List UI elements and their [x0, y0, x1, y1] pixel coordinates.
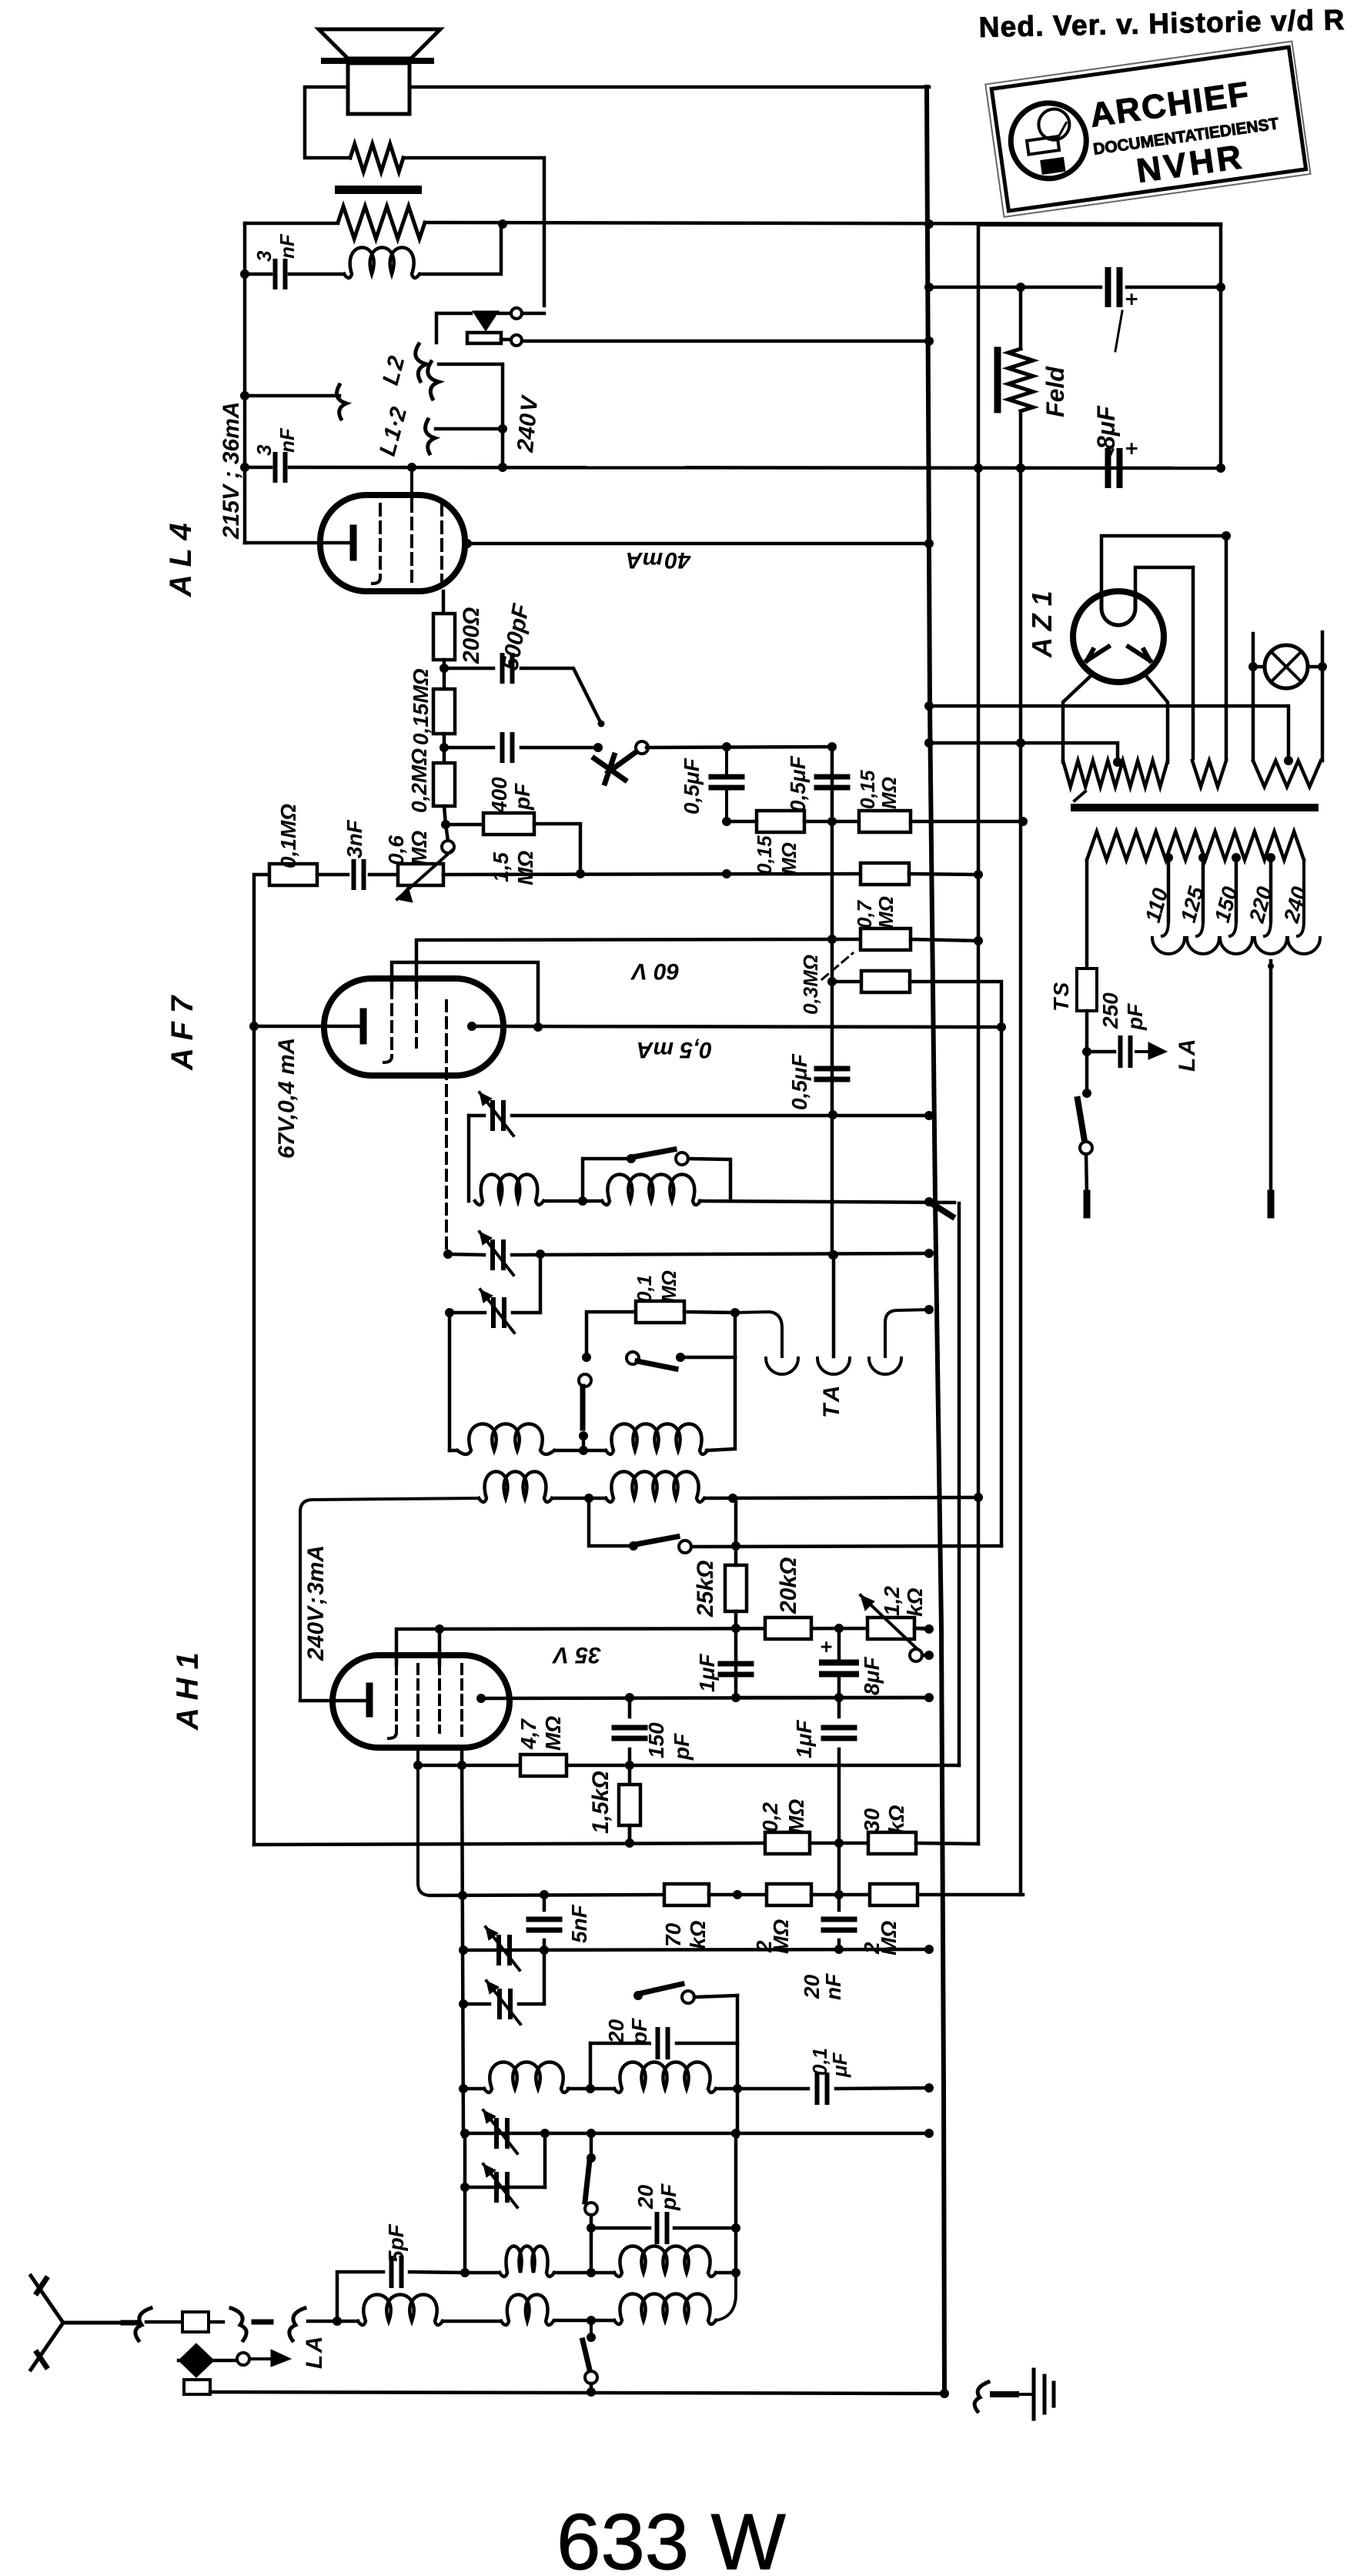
wire 1.5M to bus row: [534, 824, 580, 875]
node 1081/1448: [828, 1110, 837, 1119]
node 2462 x1090: [834, 1890, 844, 1899]
capacitor 3nF (AF7): [354, 861, 364, 888]
wire left leg row1449 to coil: [467, 1116, 471, 1201]
wire row 607 with 3nF: [245, 466, 271, 470]
node 2713 x602: [459, 2084, 468, 2093]
diamond LA plug: [179, 2343, 214, 2377]
AZ1 anode left: [1087, 647, 1108, 661]
node VD 965: [1016, 738, 1025, 748]
vertical x956 1946-2205: [734, 1498, 738, 1565]
svg-text:0,15: 0,15: [753, 835, 776, 875]
svg-text:0,5μF: 0,5μF: [680, 758, 704, 815]
wire lower contact long line to bus: [522, 340, 929, 343]
capacitor 3nF (second): [276, 454, 286, 480]
wire zigzag to right corner down: [403, 158, 544, 306]
node left rail 356: [240, 269, 249, 279]
wire 5pF branch up: [337, 2272, 383, 2321]
node 1946 right: [728, 1494, 737, 1503]
node 2603 x600: [459, 1999, 468, 2009]
wire 1.2k to bus: [914, 1628, 929, 1629]
wire 20pF2 to x956: [674, 2226, 736, 2230]
wire 3nF to pot: [369, 873, 398, 877]
transformer HV winding: [1063, 761, 1168, 787]
node bus 1628: [924, 1249, 934, 1258]
resistor 0.15M between caps: [757, 811, 804, 832]
wire 0.1M left corner down: [587, 1312, 636, 1353]
node 2394 x1090: [834, 1838, 844, 1848]
wire row 1449 to bus: [512, 1114, 929, 1118]
wire row1630 to bus: [512, 1253, 929, 1255]
node 240V rail 557: [498, 424, 507, 433]
inductor osc coil 4: [606, 1424, 707, 1455]
svg-text:1,5: 1,5: [489, 852, 513, 882]
switch row 1763 contact: [676, 1353, 685, 1362]
switch x768 lower circle: [585, 2371, 597, 2384]
node lamp right: [1318, 662, 1327, 671]
node 240V rail meets row 607: [498, 463, 507, 472]
svg-text:pF: pF: [1123, 1003, 1147, 1031]
wire fuse down: [1085, 1011, 1089, 1092]
svg-text:+: +: [1125, 287, 1138, 311]
wire 0.3M corner down (VC top): [910, 982, 1001, 1546]
wire AZ1 top right lead: [1135, 567, 1193, 593]
node coil row at bus with wiper arrow: [924, 1197, 934, 1206]
wire L2 upper terminal lead: [436, 313, 471, 343]
svg-text:0,2: 0,2: [758, 1802, 782, 1832]
wire row 2533: [463, 1949, 929, 1950]
wire row 2603 right corner: [519, 2002, 544, 2006]
svg-text:3nF: 3nF: [343, 819, 366, 858]
capacitor 8uF (cathode): [822, 1663, 856, 1674]
resistor 70kohm: [664, 1884, 709, 1905]
capacitor 0.5uF third: [817, 1069, 847, 1079]
node lamp left: [1248, 662, 1258, 671]
capacitor 20nF: [824, 1919, 854, 1930]
trimmer row 2771: [496, 2120, 507, 2146]
AZ1 anode right: [1128, 647, 1150, 661]
switch row2008 lever: [636, 1537, 677, 1544]
resistor 1.5kohm: [619, 1785, 640, 1825]
svg-text:pF: pF: [627, 2018, 651, 2046]
node 2462 x707: [540, 1890, 549, 1899]
wire coilD right up: [716, 2271, 736, 2275]
svg-text:kΩ: kΩ: [686, 1920, 710, 1949]
node VC 1334: [997, 1022, 1006, 1032]
primary taps: [1164, 853, 1173, 862]
svg-text:pF: pF: [657, 2183, 680, 2211]
wire circle to x958: [694, 1996, 737, 1997]
wire box top row 1946: [300, 1498, 479, 1701]
node bus 1701: [924, 1305, 934, 1314]
wire main bus V1: [927, 87, 944, 2394]
connector break a: [123, 2320, 137, 2326]
switch band2 contact: [579, 1431, 588, 1440]
capacitor 8uF lower: [1108, 451, 1120, 485]
switch band 1 lever: [633, 1149, 674, 1157]
node bus 965: [924, 738, 934, 748]
svg-text:0,3MΩ: 0,3MΩ: [799, 955, 822, 1015]
capacitor 0.5uF second: [817, 777, 847, 788]
resistor 4.7Mohm: [520, 1755, 567, 1776]
stamp NVHR: [985, 42, 1310, 217]
wire contact to coil row: [582, 1436, 586, 1450]
node 2771 x768: [587, 2129, 596, 2138]
svg-text:20kΩ: 20kΩ: [776, 1557, 801, 1614]
capacitor 20pF first: [658, 2029, 668, 2057]
resistor 20kohm: [765, 1618, 811, 1639]
leader 8uF upper: [1106, 311, 1122, 464]
wire row 2952 left: [465, 2271, 500, 2275]
wire 220 tap down stub: [1269, 961, 1273, 1193]
node 2713 x767: [586, 2084, 595, 2093]
wire VB vertical: [958, 1203, 961, 1765]
svg-text:35 V: 35 V: [551, 1642, 601, 1668]
switch mains circle: [1080, 1142, 1092, 1154]
wire 0.2M to 30k: [810, 1842, 868, 1845]
inductor IF coil A: [484, 2062, 569, 2093]
switch x768 lower lever: [583, 2340, 590, 2370]
transformer core bar: [1071, 804, 1319, 811]
wire junction up to switch row 1505: [583, 1159, 627, 1201]
AF7 grid2 to 60V line: [416, 939, 861, 988]
wire circle to ground bus: [590, 2384, 593, 2392]
node 2841 x604: [460, 2183, 470, 2192]
switch row2008 circle: [679, 1541, 691, 1553]
wire AL4 g3 to 200ohm: [442, 591, 446, 614]
inductor speaker secondary coil: [344, 248, 419, 279]
wire row 1630: [448, 1254, 484, 1255]
svg-text:5pF: 5pF: [384, 2223, 408, 2263]
capacitor 1uF first: [720, 1664, 751, 1674]
resistor 0.15M (AL4 chain): [433, 689, 455, 734]
wire 4.7M to VB: [567, 1764, 959, 1768]
svg-text:1,2: 1,2: [880, 1586, 904, 1616]
node VA 1222: [974, 936, 983, 945]
trimmer row 2533: [499, 1937, 510, 1963]
node 2462 x958: [733, 1890, 742, 1899]
svg-text:μF: μF: [828, 2052, 851, 2078]
node 2205 x818: [625, 1693, 634, 1702]
capacitor 1uF second: [824, 1728, 854, 1738]
antenna symbol: [31, 2276, 131, 2370]
svg-text:0,7: 0,7: [853, 899, 876, 928]
resistor 2Mohm second: [870, 1884, 917, 1905]
wire primary row to power box: [425, 222, 1221, 224]
trimmer cap row1705: [493, 1300, 504, 1326]
AF7 grid1 dashed: [390, 988, 393, 1056]
node anode/grid1 loop: [533, 1022, 543, 1032]
wire between coil3/4: [555, 1449, 606, 1453]
capacitor 150pF: [614, 1728, 645, 1738]
wire 971 row: [443, 734, 446, 763]
wire row 2771: [465, 2132, 929, 2136]
primary right end lead: [1298, 860, 1304, 936]
wire chain bottom to pot circle: [444, 806, 446, 825]
svg-text:20: 20: [604, 2019, 628, 2044]
svg-text:nF: nF: [276, 233, 299, 259]
svg-text:L 1·2: L 1·2: [375, 404, 413, 459]
svg-text:MΩ: MΩ: [874, 896, 897, 928]
node 2205 x956: [731, 1693, 740, 1702]
node ground x768: [587, 2387, 596, 2397]
wire VD Feld line: [1019, 287, 1023, 349]
20pF block left vertical: [589, 2043, 593, 2089]
node 35V x956: [731, 1624, 740, 1633]
resistor unlabeled (0.7M row2): [861, 863, 909, 885]
contact circle upper (tone switch): [511, 308, 522, 319]
svg-text:0,2MΩ: 0,2MΩ: [407, 748, 431, 813]
node ground bus/bus V1: [940, 2389, 949, 2398]
resistor 0.2M (AL4 chain): [433, 763, 455, 806]
capacitor 20pF second: [657, 2214, 667, 2242]
switch row 1763 dot: [582, 1353, 591, 1362]
wire AZ1 leg right: [1146, 676, 1168, 762]
wire 36mA row: [245, 394, 339, 398]
wire 8uF upper to box edge: [1127, 286, 1221, 289]
wire 1071 row to 1.5M: [446, 823, 483, 827]
node tone switch contact: [598, 721, 605, 728]
switch row2008 dot: [629, 1541, 638, 1551]
svg-text:MΩ: MΩ: [513, 851, 537, 885]
wire row 1449: [469, 1114, 484, 1118]
svg-text:pF: pF: [670, 1733, 694, 1761]
svg-text:MΩ: MΩ: [877, 777, 901, 809]
wire L1-2 right to 240V rail: [436, 427, 503, 431]
svg-text:MΩ: MΩ: [657, 1270, 680, 1303]
AH1 grid line down x543: [418, 1748, 430, 1895]
tap terminal arcs: [1152, 938, 1185, 954]
AH1 grid line down x600: [462, 1748, 463, 2136]
node grid3 row1630: [443, 1250, 453, 1259]
vertical x956 2771-2952: [734, 2133, 738, 2273]
svg-text:L A: L A: [302, 2337, 327, 2370]
resistor 200ohm: [433, 614, 455, 660]
node bus 706: [924, 539, 934, 548]
wire row 1067 to right 0.15M: [804, 820, 859, 824]
node 1884 junction: [579, 1446, 588, 1455]
switch band 1 circle: [676, 1153, 688, 1165]
wire 0.7M to VA: [911, 939, 978, 941]
tone switch cross: [594, 755, 625, 783]
svg-text:0,15: 0,15: [856, 770, 879, 809]
node 2293 x543: [413, 1761, 423, 1770]
magnet core bar: [335, 186, 422, 194]
AH1 top leads to 35V row: [396, 1628, 929, 1664]
capacitor 400pF: [503, 734, 513, 761]
inductor osc coil 6: [606, 1472, 704, 1503]
wire to node 3015: [308, 2320, 337, 2323]
wire coilE-F: [554, 2319, 614, 2323]
contact circle lower (tone switch): [511, 335, 522, 346]
node 1081/1630: [828, 1250, 837, 1260]
AL4 grid 3 dashed: [440, 504, 443, 591]
svg-text:1,5kΩ: 1,5kΩ: [588, 1771, 613, 1834]
ground symbol: [1018, 2393, 1031, 2396]
svg-text:T S: T S: [1049, 982, 1073, 1012]
wire 0.1M right to node: [684, 1312, 735, 1313]
wire 2M to 2M: [811, 1893, 870, 1897]
leader dashed 0.3M: [822, 953, 853, 979]
svg-text:Ned. Ver. v. Historie v/d R: Ned. Ver. v. Historie v/d R: [978, 4, 1345, 43]
resistor 0.15Mohm right rail: [859, 811, 911, 832]
node 868: [440, 664, 449, 673]
svg-text:MΩ: MΩ: [541, 1716, 565, 1751]
svg-text:40 mA: 40 mA: [626, 547, 691, 573]
AZ1 filament top loop: [1101, 593, 1135, 625]
node left rail AF7 cathode: [249, 1022, 259, 1031]
inductor ant coil G: [358, 2295, 443, 2326]
wire row 917 from bus: [929, 706, 1289, 761]
svg-text:nF: nF: [821, 1973, 845, 2000]
wire row 1134 to right: [443, 874, 861, 875]
node 1630 x1083: [829, 1250, 838, 1260]
wire power box top edge: [978, 223, 1221, 227]
wire cap to coil: [289, 273, 344, 276]
potentiometer 1.2kohm: [867, 1618, 914, 1639]
wire coilA-coilB: [568, 2087, 614, 2091]
wire coilB right: [716, 2087, 808, 2091]
switch row 2592 circle: [682, 1991, 694, 2003]
svg-text:A H 1: A H 1: [171, 1652, 205, 1731]
svg-text:240: 240: [1279, 884, 1312, 926]
wire coil4 right corner up: [707, 1357, 735, 1450]
svg-text:0,15MΩ: 0,15MΩ: [409, 668, 433, 745]
node primary-coil junction: [498, 219, 507, 229]
transformer rect filament winding: [1192, 761, 1226, 787]
AL4 anode lead 40mA line: [463, 539, 472, 548]
svg-text:20: 20: [800, 1974, 824, 1999]
svg-text:+: +: [821, 1635, 832, 1658]
svg-text:MΩ: MΩ: [407, 831, 431, 865]
vertical x708 2771-2841: [543, 2133, 547, 2187]
wire row 2841: [465, 2186, 545, 2190]
AL4 cathode: [350, 528, 357, 557]
capacitor 0.1uF: [817, 2075, 827, 2103]
wire row 373: [929, 286, 1101, 289]
wire pot element to lower contact: [501, 338, 511, 342]
wire row 607 to power supply: [289, 467, 1221, 468]
inductor osc coil 3: [457, 1424, 554, 1455]
svg-text:500pF: 500pF: [497, 601, 534, 672]
wire row2008 to VC: [691, 1546, 1001, 1547]
node 2462 x600: [458, 1891, 467, 1900]
vertical x707 2461-2603: [543, 1895, 546, 1910]
wire left rail top section: [243, 223, 247, 543]
wire row 1134 left corner: [254, 875, 269, 1845]
pot 0.6M wiper circle: [442, 841, 454, 853]
wire coilC-D: [554, 2271, 614, 2275]
svg-text:1μF: 1μF: [695, 1654, 719, 1692]
wire trimmer to corner up x702: [513, 1254, 540, 1313]
inductor osc coil 5: [479, 1472, 552, 1503]
wire 500pF to tone switch: [521, 668, 601, 724]
node 2533 x600: [459, 1945, 468, 1955]
node 1134 b: [722, 869, 731, 878]
wire 30k to VA bottom: [916, 1843, 978, 1844]
svg-text:0,1MΩ: 0,1MΩ: [276, 804, 300, 868]
wire 1946 junction down to row 2008: [589, 1498, 629, 1546]
AH1 cathode: [366, 1686, 373, 1714]
node 35V x571: [435, 1624, 444, 1634]
svg-text:L 2: L 2: [378, 353, 410, 388]
svg-text:25kΩ: 25kΩ: [693, 1561, 718, 1618]
AF7 grid1 top connection to anode loop: [392, 962, 538, 1027]
wire AZ1 leg left: [1063, 676, 1091, 762]
wire 5pF to row 2952: [409, 2272, 465, 2273]
switch row 1763 lever: [637, 1361, 676, 1369]
AH1 grid dashed d: [460, 1664, 463, 1736]
node 3014 x768: [587, 2316, 596, 2325]
node bus 2150: [924, 1651, 934, 1660]
node 20k right: [834, 1624, 844, 1633]
wire row 1275: [832, 980, 861, 984]
wire upper contact to speaker-zigzag rail: [522, 312, 544, 316]
node 3015 x438: [333, 2317, 342, 2326]
switch band 1 dot: [627, 1154, 636, 1163]
wire speaker right lead to bus: [409, 85, 929, 89]
wire x1550 down to winding: [1192, 567, 1195, 758]
node bus 1449: [924, 1111, 934, 1120]
wire 20pF to x958: [677, 2042, 737, 2046]
svg-text:3: 3: [252, 250, 276, 262]
svg-text:nF: nF: [276, 427, 299, 453]
wire x1593 down to winding: [1225, 536, 1228, 758]
resistor 2Mohm first: [767, 1884, 811, 1905]
node 2713 x958: [733, 2084, 742, 2093]
node 1067 a: [722, 817, 731, 826]
node 2205 x1090: [834, 1693, 844, 1702]
AF7 grid3 dashed down: [445, 1001, 448, 1254]
wire L2 lower to 240V rail: [439, 364, 503, 467]
svg-text:Feld: Feld: [1041, 366, 1069, 417]
node bus 2532: [924, 1945, 934, 1954]
wire 70k to 2M: [709, 1893, 767, 1897]
inductor ant coil F: [614, 2294, 716, 2325]
wire row 2293: [418, 1764, 520, 1768]
AF7 cathode: [360, 1012, 367, 1041]
wire 0.1uF to bus: [836, 2088, 929, 2089]
svg-text:kΩ: kΩ: [903, 1587, 927, 1617]
wire TA right up to bus: [885, 1310, 929, 1357]
wire antenna row: [337, 2320, 358, 2323]
AH1 grid dashed b: [416, 1664, 419, 1736]
svg-text:200Ω: 200Ω: [459, 607, 484, 664]
resistor 0.7Mohm right rail: [861, 928, 911, 950]
wire 2M2 to VD bottom: [917, 1893, 1023, 1897]
svg-text:400: 400: [487, 777, 511, 814]
resistor 25kohm: [725, 1565, 747, 1611]
svg-text:240 V: 240 V: [513, 393, 543, 453]
node 2394 x818: [625, 1838, 634, 1848]
node row2008 x956: [731, 1541, 740, 1551]
wire row 1067: [727, 820, 757, 824]
node 1071: [441, 820, 450, 829]
svg-text:0,5 mA: 0,5 mA: [637, 1037, 712, 1062]
node 2952 x604: [460, 2268, 470, 2277]
node 2533 x1090: [834, 1945, 844, 1954]
node left rail 607: [240, 463, 249, 472]
resistor 0.3Mohm right rail: [861, 971, 910, 992]
svg-text:215V ; 36mA: 215V ; 36mA: [219, 402, 244, 540]
arrow LA right: [1136, 1050, 1148, 1053]
wire 0.15M to Feld line: [911, 820, 1023, 824]
wire coil6 right to VA: [705, 1497, 978, 1498]
node 2293 x818: [625, 1761, 634, 1770]
wire row 1884 left corner: [450, 1449, 457, 1453]
wire mains stub: [1086, 1154, 1087, 1193]
capacitor 5pF: [392, 2258, 402, 2286]
tube AH1 envelope: [333, 1655, 510, 1748]
